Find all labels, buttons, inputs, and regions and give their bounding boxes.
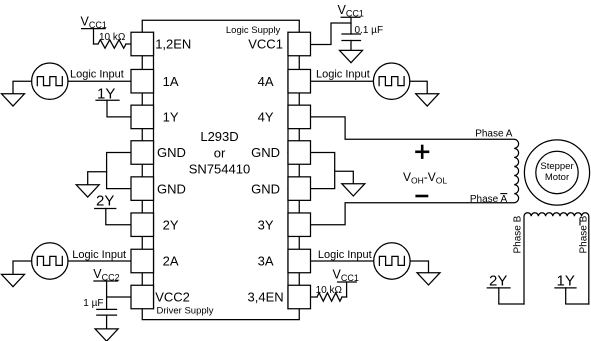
svg-text:Logic Input: Logic Input xyxy=(72,249,126,261)
svg-text:GND: GND xyxy=(251,181,280,196)
svg-text:GND: GND xyxy=(251,145,280,160)
svg-text:2Y: 2Y xyxy=(163,217,179,232)
svg-text:2Y: 2Y xyxy=(489,273,507,290)
svg-text:VCC1: VCC1 xyxy=(248,37,283,52)
svg-text:1 µF: 1 µF xyxy=(83,298,103,309)
svg-text:10 kΩ: 10 kΩ xyxy=(316,285,343,296)
svg-text:1Y: 1Y xyxy=(557,273,575,290)
svg-text:4Y: 4Y xyxy=(258,110,274,125)
svg-text:1Y: 1Y xyxy=(97,86,115,103)
svg-text:1Y: 1Y xyxy=(163,110,179,125)
svg-text:Phase A: Phase A xyxy=(475,129,513,140)
svg-text:3A: 3A xyxy=(258,254,274,269)
svg-text:GND: GND xyxy=(157,181,186,196)
svg-text:2Y: 2Y xyxy=(96,193,114,210)
svg-text:Motor: Motor xyxy=(545,172,569,183)
svg-text:2A: 2A xyxy=(163,254,179,269)
svg-text:10 kΩ: 10 kΩ xyxy=(99,32,126,43)
svg-text:Logic Input: Logic Input xyxy=(316,68,370,80)
svg-text:VCC2: VCC2 xyxy=(155,290,190,305)
svg-text:1A: 1A xyxy=(163,74,179,89)
svg-text:or: or xyxy=(214,146,226,161)
svg-text:L293D: L293D xyxy=(200,129,238,144)
svg-text:Phase A: Phase A xyxy=(470,194,508,205)
svg-text:3Y: 3Y xyxy=(258,217,274,232)
svg-text:GND: GND xyxy=(157,145,186,160)
svg-text:SN754410: SN754410 xyxy=(189,162,250,177)
svg-text:Logic Supply: Logic Supply xyxy=(226,25,281,36)
svg-text:0.1 µF: 0.1 µF xyxy=(355,25,384,36)
svg-text:4A: 4A xyxy=(258,74,274,89)
svg-text:Logic Input: Logic Input xyxy=(70,68,124,80)
svg-text:Phase B: Phase B xyxy=(513,215,524,253)
svg-text:1,2EN: 1,2EN xyxy=(155,37,191,52)
svg-text:Driver Supply: Driver Supply xyxy=(157,305,214,316)
svg-text:Stepper: Stepper xyxy=(540,161,573,172)
svg-text:Logic Input: Logic Input xyxy=(318,249,372,261)
svg-text:3,4EN: 3,4EN xyxy=(248,290,284,305)
